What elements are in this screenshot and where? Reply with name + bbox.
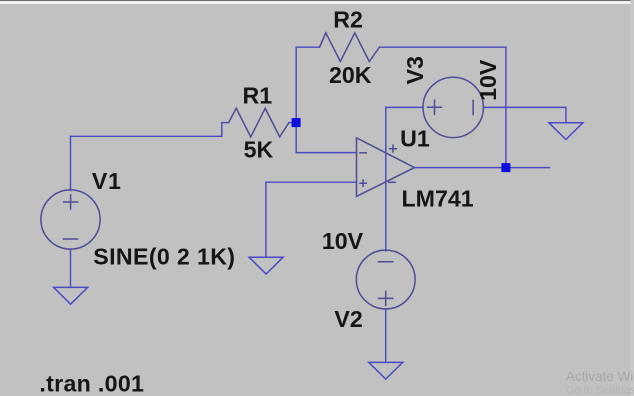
svg-text:Activate Wind: Activate Wind [566,369,634,384]
toolbar bottom edge [0,0,634,1]
svg-text:R2: R2 [333,7,363,33]
op-amp V- power marker [389,181,395,183]
wire V1 top vertical [70,136,72,190]
wire V3 right [483,106,566,108]
wire R1 step vertical [221,123,223,137]
source V2 minus [379,261,393,263]
svg-text:SINE(0 2 1K): SINE(0 2 1K) [93,244,235,270]
wire R1 lead-in [222,122,229,124]
source V2 plus [379,291,393,305]
right window edge strip [631,0,634,396]
wire V1 bottom to ground [70,249,72,287]
svg-text:.tran .001: .tran .001 [39,371,144,396]
svg-text:10V: 10V [475,59,501,101]
resistor R2 zigzag [320,33,380,62]
source V3 minus bar [472,101,474,115]
ground right of V3 [549,123,583,140]
source V1 minus [64,238,78,240]
ground below V1 [54,287,88,304]
source V1 plus [64,195,78,209]
source V2 circle [356,250,415,309]
source V3 circle [423,77,483,137]
node A junction (R1/R2/op-amp) [292,118,301,127]
resistor R1 zigzag [229,108,289,137]
wire R2 right vertical down to output [505,47,507,167]
svg-text:20K: 20K [329,62,372,88]
wire non-inverting to ground [265,182,267,257]
wire op-amp output [415,167,550,169]
ground below non-inverting input [249,257,283,274]
wire V1 to R1 horizontal [71,135,222,137]
wire V3 right drop to ground [565,107,567,122]
svg-text:10V: 10V [322,228,364,254]
source V1 circle [41,190,100,249]
svg-text:U1: U1 [400,125,430,151]
svg-text:V1: V1 [92,168,122,194]
wire V2 bottom to ground [385,309,387,363]
svg-text:5K: 5K [244,136,274,162]
op-amp V+ power marker [390,145,397,152]
svg-text:R1: R1 [243,83,273,109]
svg-text:Go to Settings to: Go to Settings to [566,385,634,396]
wire op-amp power vertical [385,107,387,251]
svg-text:V3: V3 [402,56,428,84]
op-amp inverting input minus marker [360,152,366,154]
wire R2 lead-in [296,46,319,48]
svg-text:V2: V2 [334,306,362,332]
output node junction [501,163,510,172]
svg-text:LM741: LM741 [402,185,474,211]
wire R2 output to right [379,46,506,48]
op-amp U1 triangle [357,138,415,197]
ground below V2 [369,362,403,379]
wire R1 to node [289,122,296,124]
wire non-inverting input [266,181,357,183]
wire node down to inverting input [296,123,356,153]
source V3 plus [428,100,442,114]
wire V3 left [386,106,423,108]
op-amp non-inverting input plus marker [360,180,366,186]
wire node to R2 vertical [295,47,297,122]
